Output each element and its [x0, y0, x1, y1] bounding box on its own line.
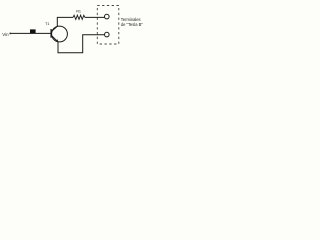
transistor collector diagonal	[51, 26, 57, 31]
svg-text:de "Tesla B": de "Tesla B"	[121, 22, 144, 27]
transistor base bar	[50, 29, 52, 38]
svg-text:R1: R1	[76, 10, 81, 14]
component filled box on input wire	[30, 29, 36, 33]
background	[0, 0, 150, 62]
transistor emitter diagonal with arrow	[51, 35, 58, 41]
input arrow tick at Vin wire start	[10, 33, 11, 35]
resistor R1 zigzag	[73, 15, 85, 19]
svg-text:Vin: Vin	[2, 32, 9, 37]
terminal circle bottom	[105, 32, 110, 37]
transistor Q1 body circle	[52, 26, 68, 42]
wire R1 to top terminal	[85, 16, 105, 18]
wire Vin to base (input wire)	[10, 32, 52, 34]
dashed enclosure box	[97, 6, 119, 45]
svg-text:T1: T1	[45, 22, 49, 26]
wire collector vertical	[57, 17, 73, 26]
emitter arrowhead	[55, 39, 58, 42]
wire emitter down and bottom rail	[58, 35, 104, 53]
terminal circle top	[105, 14, 110, 19]
